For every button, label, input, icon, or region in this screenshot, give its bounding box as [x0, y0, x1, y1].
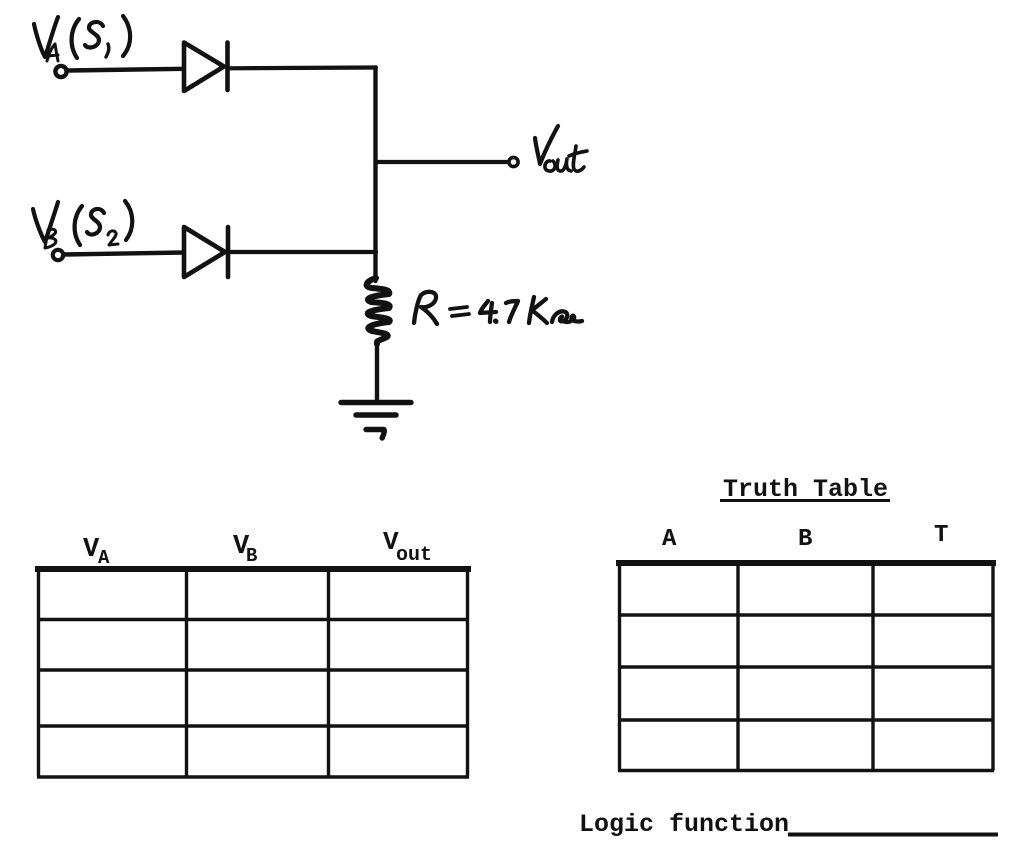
svg-text:A: A: [98, 547, 110, 569]
svg-text:Logic function: Logic function: [579, 810, 789, 839]
ground: [341, 403, 411, 439]
wire D2 cathode to output node: [228, 250, 376, 254]
svg-text:out: out: [396, 544, 432, 567]
node Vout terminal: [509, 157, 518, 166]
blank answer line: [788, 833, 998, 837]
diode D2: [184, 227, 228, 277]
wire VB terminal to D2 anode: [64, 253, 184, 255]
diode D1: [184, 43, 228, 92]
node VB input terminal: [53, 250, 63, 260]
node VA input terminal: [55, 66, 66, 77]
wire VA terminal to D1 anode: [68, 69, 184, 71]
svg-text:B: B: [798, 526, 812, 553]
wire to Vout terminal: [376, 160, 508, 164]
label Vout: [535, 126, 587, 171]
label VB (S2): [33, 201, 132, 248]
svg-text:A: A: [662, 526, 677, 553]
svg-text:T: T: [934, 522, 948, 549]
wire output bus (vertical): [373, 68, 377, 282]
table T: truth table grid: [616, 563, 996, 771]
wire D1 cathode to output node: [228, 65, 377, 70]
label R = 4.7 Kohm: [414, 292, 582, 324]
wire resistor to ground: [375, 344, 379, 400]
svg-text:B: B: [246, 545, 257, 567]
resistor R: [367, 278, 390, 344]
table M: measured voltages table grid: [35, 569, 471, 777]
label VA (S1): [34, 16, 130, 61]
